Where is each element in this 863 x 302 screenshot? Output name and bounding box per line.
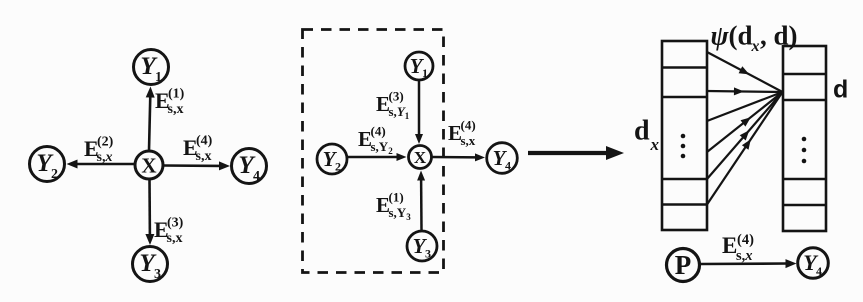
attention line 1 (top cell) <box>707 52 783 92</box>
svg-text:3: 3 <box>154 267 161 282</box>
svg-text:4: 4 <box>253 169 260 184</box>
label E_s,x^(2) <box>84 135 114 166</box>
edge X to Y3 (left graph) <box>145 180 154 246</box>
svg-text:s,Y2: s,Y2 <box>371 139 394 156</box>
node X (left graph) <box>135 151 163 179</box>
svg-text:s,x: s,x <box>167 231 183 246</box>
svg-text:4: 4 <box>505 159 511 173</box>
svg-text:(3): (3) <box>389 89 404 104</box>
svg-text:s,x: s,x <box>97 150 113 165</box>
node Y3 (middle graph) <box>407 231 437 261</box>
vector d_x column <box>662 41 707 230</box>
svg-text:x: x <box>650 135 660 154</box>
svg-text:(4): (4) <box>196 134 213 149</box>
node Y4 (middle graph) <box>487 143 518 174</box>
svg-text:4: 4 <box>816 264 822 278</box>
edge X to Y1 (left graph) <box>146 87 155 151</box>
vertical dots in d column <box>802 137 807 164</box>
svg-text:(1): (1) <box>389 190 404 205</box>
label d_x <box>634 116 660 155</box>
svg-text:(4): (4) <box>371 124 386 139</box>
svg-text:(2): (2) <box>97 135 114 150</box>
node Y1 (middle graph) <box>405 52 433 80</box>
attention line 2 (second cell) <box>707 87 783 95</box>
label E_s,x^(4) (P to Y4) <box>722 232 754 264</box>
attention line 6 <box>707 92 783 205</box>
svg-text:s,x: s,x <box>168 102 184 117</box>
svg-text:1: 1 <box>422 66 428 80</box>
edge X to Y4 (left graph) <box>164 161 231 170</box>
node X (middle graph) <box>409 146 432 169</box>
svg-text:(4): (4) <box>737 232 754 248</box>
node Y4 (left graph) <box>232 149 267 185</box>
node Y1 (left graph) <box>134 50 169 86</box>
svg-text:1: 1 <box>155 70 162 85</box>
edge X to Y4 (middle graph) <box>432 153 485 161</box>
svg-text:d: d <box>833 76 848 104</box>
edge Y1 to X (middle graph) <box>415 81 423 144</box>
vertical dots in d_x column <box>681 134 686 159</box>
svg-text:ψ(d: ψ(d <box>711 21 753 51</box>
svg-text:(3): (3) <box>167 216 184 231</box>
dashed selection box <box>303 30 444 273</box>
edge Y2 to X (middle graph) <box>348 153 407 161</box>
svg-text:2: 2 <box>335 160 341 174</box>
edge P to Y4 <box>701 259 797 268</box>
svg-text:s,Y1: s,Y1 <box>389 104 410 121</box>
attention line 3 <box>707 92 783 121</box>
svg-text:X: X <box>141 154 156 178</box>
svg-text:s,x: s,x <box>196 149 212 164</box>
svg-text:d: d <box>634 116 650 147</box>
svg-text:s,Y3: s,Y3 <box>389 205 412 222</box>
svg-text:(1): (1) <box>168 87 185 102</box>
edge Y3 to X (middle graph) <box>417 171 425 231</box>
svg-text:X: X <box>414 148 427 167</box>
label psi(d_x, d) <box>711 21 798 56</box>
svg-text:3: 3 <box>425 247 431 261</box>
label E_s,Y2^(4) <box>358 124 393 157</box>
attention line 4 <box>707 92 783 152</box>
label E_s,x^(4) (middle graph) <box>448 118 476 149</box>
svg-text:s,x: s,x <box>736 248 753 264</box>
big arrow (middle to right) <box>528 146 624 160</box>
svg-text:x: x <box>751 38 760 55</box>
node P <box>667 249 700 282</box>
svg-text:, d): , d) <box>760 21 798 51</box>
label E_s,Y3^(1) <box>376 190 411 223</box>
edge X to Y2 (left graph) <box>67 160 135 169</box>
node Y3 (left graph) <box>133 247 168 283</box>
label E_s,x^(1) <box>155 87 185 118</box>
node Y2 (middle graph) <box>317 144 347 174</box>
node Y2 (left graph) <box>30 147 65 183</box>
label E_s,x^(3) <box>154 216 184 247</box>
svg-text:P: P <box>675 250 692 280</box>
node Y4 (bottom right) <box>798 248 829 279</box>
svg-text:(4): (4) <box>461 118 476 133</box>
label E_s,x^(4) (left graph) <box>183 134 213 165</box>
label E_s,Y1^(3) <box>376 89 410 122</box>
svg-text:2: 2 <box>51 167 58 182</box>
svg-text:s,x: s,x <box>461 133 476 148</box>
vector d column <box>783 46 826 231</box>
attention line 5 <box>707 92 783 179</box>
